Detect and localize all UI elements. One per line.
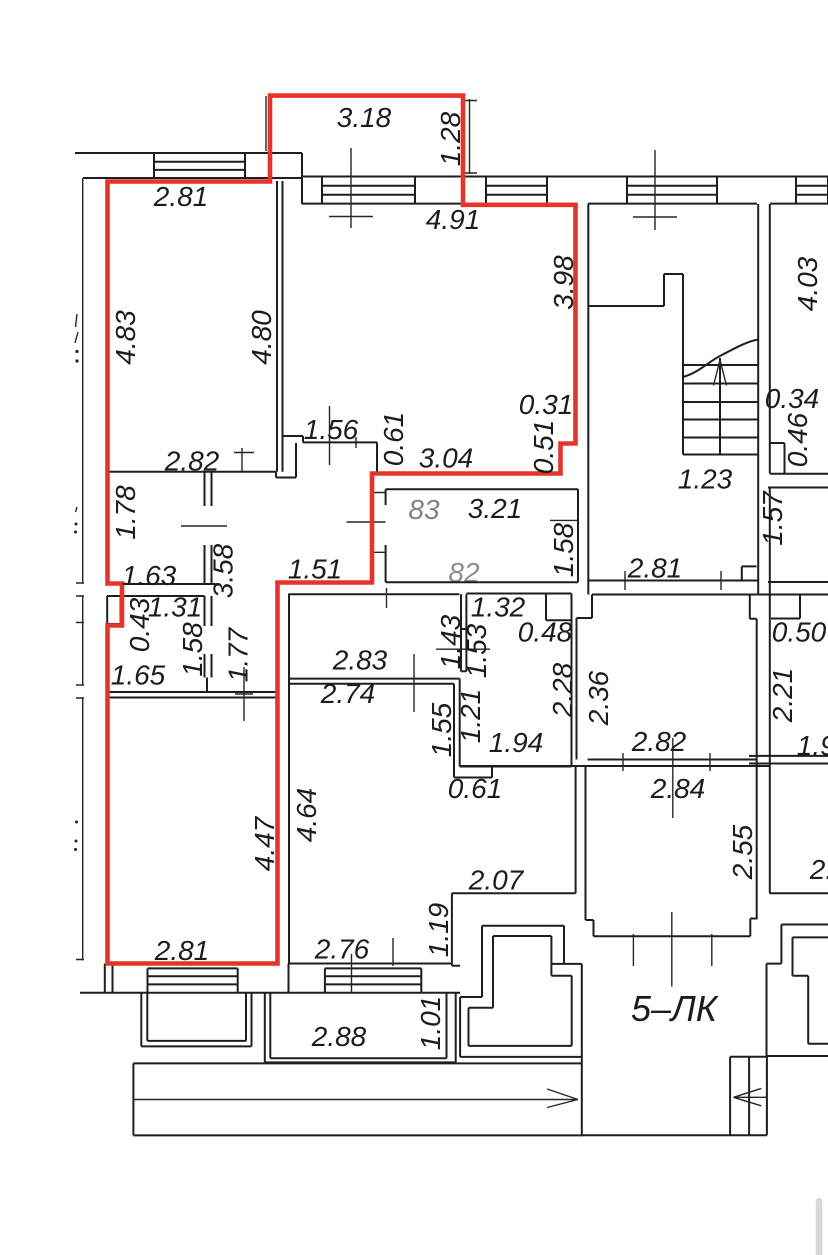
svg-text:4.47: 4.47 (249, 815, 280, 871)
svg-text:1.19: 1.19 (423, 903, 454, 958)
dimension ticks doors band (623, 753, 710, 771)
svg-text:2.21: 2.21 (767, 668, 798, 724)
porch inner outline (469, 936, 572, 1046)
svg-text:0.43: 0.43 (124, 597, 155, 652)
dimension tick door corridor (181, 525, 227, 527)
wall 1.57 room bottom (768, 581, 828, 583)
balcony bottom left (141, 993, 251, 1046)
svg-text:1.23: 1.23 (678, 464, 733, 495)
wall 1.57 room top (768, 487, 828, 489)
svg-text:83: 83 (408, 494, 440, 525)
door recess box 0.48 (546, 594, 572, 621)
wall top of niche room (466, 593, 571, 595)
right rooms band walls (749, 756, 828, 764)
svg-text:2.83: 2.83 (332, 645, 388, 676)
wall bottom of small rooms double (108, 692, 277, 698)
interior wall x204-211 lower with door gap (205, 596, 212, 678)
middle room inset right (750, 595, 757, 919)
svg-text:2.84: 2.84 (650, 773, 706, 804)
wall band y584-596 (107, 584, 216, 596)
window bottom 2.76 (325, 968, 421, 992)
dimension tick 2.84 / 5-LK (671, 912, 673, 987)
middle room inset left (577, 595, 593, 760)
svg-text:2.81: 2.81 (153, 181, 209, 212)
dimension cross line 1.43/1.53 (436, 648, 490, 650)
stairwell left wall (587, 204, 589, 595)
corridor walls (133, 1063, 583, 1135)
svg-text:3.58: 3.58 (208, 543, 239, 598)
svg-text:1.55: 1.55 (426, 702, 457, 757)
wall band y678-684 (288, 679, 459, 684)
svg-text:4.03: 4.03 (792, 256, 823, 311)
svg-text:2.82: 2.82 (631, 726, 687, 757)
svg-text:2.07: 2.07 (468, 865, 525, 896)
wall step right of room1 (276, 443, 296, 478)
right entry side wall (767, 964, 828, 1056)
svg-text:1.94: 1.94 (489, 727, 544, 758)
wall band below middle room (460, 760, 770, 767)
dimension tick niche (330, 406, 357, 465)
svg-text:1.78: 1.78 (110, 485, 141, 540)
wall stubs below red room (105, 964, 289, 993)
dimension cross tick 2.82 (234, 448, 254, 472)
svg-text:1.56: 1.56 (304, 414, 359, 445)
porch outer outline (460, 926, 582, 1136)
right bottom outer wall (767, 925, 828, 964)
right apartment wall x770 upper (769, 204, 771, 443)
wall top-left inner face (83, 177, 302, 179)
stair up arrow (714, 360, 727, 386)
right rooms top wall (750, 594, 828, 596)
svg-text:2.81: 2.81 (627, 553, 683, 584)
wall 1.19 (452, 893, 460, 966)
wall top band inner face segments (302, 203, 828, 205)
svg-text:1.31: 1.31 (148, 592, 203, 623)
bottom inner face wall (289, 963, 452, 965)
wall 2.07 (452, 892, 576, 894)
door notch box stairwell (742, 566, 757, 580)
dimension tick 2.82 room (672, 738, 674, 818)
window D top band (796, 177, 828, 204)
loggia 2.88 walls (265, 993, 456, 1063)
svg-text:4.64: 4.64 (291, 788, 322, 843)
wall step at x302 (301, 153, 303, 204)
svg-text:0.50: 0.50 (772, 617, 827, 648)
svg-text:4.80: 4.80 (246, 310, 277, 365)
svg-text:1.57: 1.57 (757, 490, 788, 546)
entry steps box right (730, 1057, 767, 1136)
corridor arrow right (133, 1089, 578, 1108)
bottom outer face wall (80, 992, 460, 994)
svg-text:2.76: 2.76 (314, 934, 370, 965)
svg-text:1.65: 1.65 (111, 660, 166, 691)
left boundary end ticks (76, 583, 84, 960)
dimension tick on wall 594 (386, 588, 388, 608)
room 2.84 walls (586, 766, 758, 936)
svg-text:3.18: 3.18 (337, 102, 392, 133)
stair break curve (683, 340, 758, 378)
door jamb ticks below 2.84 (633, 934, 711, 966)
interior wall A double x461-466 (461, 594, 466, 671)
svg-text:0.31: 0.31 (519, 389, 574, 420)
svg-text:0.48: 0.48 (518, 617, 573, 648)
wall stub connector (206, 678, 208, 693)
svg-text:0.46: 0.46 (782, 412, 813, 467)
dimension cross tick 1.65 (235, 667, 253, 721)
svg-text:2.28: 2.28 (547, 662, 578, 718)
window bottom left (148, 968, 238, 992)
svg-text:1.94: 1.94 (797, 730, 828, 761)
svg-text:1.77: 1.77 (223, 626, 254, 682)
wall top-left outer face (75, 152, 302, 154)
wall top of room 2.83-left (288, 593, 459, 595)
window in top-left wall (154, 153, 245, 178)
right bottom inner recess (793, 937, 828, 1043)
svg-text:1.53: 1.53 (461, 623, 492, 678)
stairwell hall bottom wall 2.81 (588, 580, 758, 582)
svg-text:2.55: 2.55 (809, 854, 828, 885)
svg-text:1.28: 1.28 (435, 111, 466, 166)
svg-text:1.01: 1.01 (415, 996, 446, 1051)
shaft box right 0.46 (770, 443, 785, 473)
svg-text:1.51: 1.51 (288, 554, 343, 585)
svg-text:1.21: 1.21 (455, 689, 486, 744)
red apartment boundary outline (108, 96, 576, 964)
wall top band outer face (302, 176, 828, 178)
svg-text:2.36: 2.36 (583, 670, 614, 726)
svg-text:3.98: 3.98 (548, 255, 579, 310)
scrollbar artifact bottom right (816, 1198, 822, 1255)
wall room1 bottom (2.82) (109, 471, 276, 473)
walls left of room 2.84 (575, 766, 577, 893)
wall left of room 4.64 (288, 594, 290, 963)
niche wall 1.56 (283, 436, 378, 473)
svg-text:2.74: 2.74 (320, 678, 376, 709)
svg-text:0.61: 0.61 (448, 773, 503, 804)
dimension extension balcony left (265, 96, 267, 151)
middle room top wall (592, 594, 750, 596)
window B top band (486, 177, 547, 204)
room 3.21 walls (386, 489, 578, 582)
svg-text:2.81: 2.81 (154, 935, 210, 966)
dimension line 1.28 balcony right (462, 99, 477, 174)
interior wall double x571-576 (571, 594, 573, 767)
wall 4.03 room bottom (770, 473, 828, 475)
svg-text:2.55: 2.55 (727, 824, 758, 880)
dimension tick window A (329, 148, 373, 228)
right apartment wall x770 lower (769, 488, 771, 894)
dimension ticks 2.81 stair hall (625, 571, 721, 590)
stairwell right wall (757, 204, 759, 595)
stair flight divider (719, 358, 721, 455)
svg-text:4.91: 4.91 (426, 204, 481, 235)
stair treads (683, 365, 758, 455)
wall right of room 4.64 lower (454, 679, 460, 778)
entry arrow left (734, 1088, 768, 1105)
svg-text:0.61: 0.61 (378, 412, 409, 467)
dimension tick 2.83/2.74 (413, 654, 415, 712)
duct shaft box (107, 596, 120, 624)
right room bottom wall 1.9 (770, 892, 828, 894)
dimension ticks bottom windows (352, 938, 394, 994)
svg-text:0.34: 0.34 (765, 383, 820, 414)
interior wall double vertical x277-282 (277, 181, 283, 472)
svg-text:82: 82 (448, 557, 480, 588)
door recess box 0.50 (771, 595, 800, 619)
wall 1.94 horizontal (454, 767, 572, 778)
dimension tick window C (633, 150, 677, 230)
svg-text:3.21: 3.21 (468, 493, 523, 524)
svg-text:3.04: 3.04 (419, 443, 474, 474)
left boundary dimension line segments (82, 178, 84, 960)
dimension ticks room 3.21 doors (347, 493, 579, 553)
svg-text:1.63: 1.63 (122, 560, 177, 591)
window C top band (627, 177, 717, 204)
window A top band (322, 177, 415, 204)
svg-text:5–ЛК: 5–ЛК (631, 988, 719, 1029)
svg-text:1.58: 1.58 (177, 622, 208, 677)
stair block bottom wall (583, 1134, 767, 1136)
svg-text:1.58: 1.58 (548, 522, 579, 577)
svg-text:0.51: 0.51 (528, 420, 559, 475)
svg-text:2.82: 2.82 (164, 446, 220, 477)
stair landing walls (588, 274, 683, 455)
svg-text:4.83: 4.83 (110, 310, 141, 365)
cut-off label fragments left edge (75, 314, 78, 512)
svg-text:2.88: 2.88 (311, 1021, 367, 1052)
interior wall x204-211 upper with door gap (205, 472, 212, 584)
